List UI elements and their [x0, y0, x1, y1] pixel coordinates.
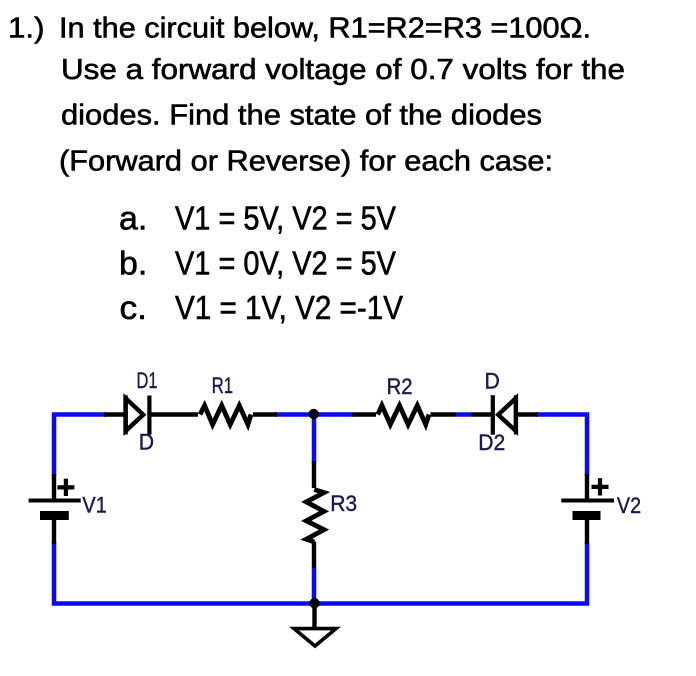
diode D2 [491, 395, 495, 435]
ground symbol [294, 629, 336, 646]
svg-text:D: D [485, 369, 500, 394]
wire top-right corner + right vertical upper [536, 415, 587, 477]
ground stem [312, 603, 316, 628]
svg-text:b.: b. [119, 245, 147, 282]
battery V1 plus sign [57, 485, 74, 489]
svg-text:D: D [139, 430, 154, 455]
svg-text:diodes. Find the state of the: diodes. Find the state of the diodes [61, 100, 542, 132]
svg-text:V1 = 0V, V2 = 5V: V1 = 0V, V2 = 5V [175, 245, 397, 282]
problem statement text [8, 12, 625, 327]
resistor R1 [200, 406, 251, 425]
svg-text:1.): 1.) [8, 12, 45, 44]
resistor R3 [306, 490, 324, 543]
svg-text:c.: c. [120, 290, 148, 327]
battery V1 bottom lead [52, 520, 56, 544]
node junction dot (top) [309, 409, 319, 419]
component labels [82, 368, 641, 518]
wire D1 anode lead [104, 412, 127, 416]
battery V1 positive plate [29, 499, 81, 503]
svg-text:V1 = 5V, V2 = 5V: V1 = 5V, V2 = 5V [175, 200, 397, 237]
battery V2 bottom lead [585, 520, 589, 544]
wire D1 to R1 [149, 412, 198, 416]
wire node vertical to R3 [312, 415, 317, 464]
resistor R2 [378, 406, 429, 425]
svg-text:R1: R1 [212, 373, 234, 398]
wire R2 to D2 [431, 412, 457, 416]
battery V1 negative plate [40, 511, 69, 520]
wire left vertical lower + bottom wire + right vertical lower [54, 542, 587, 604]
svg-text:(Forward or Reverse) for each: (Forward or Reverse) for each case: [59, 146, 553, 178]
wire R3 bottom lead [312, 542, 316, 569]
wire into D2 cathode [471, 412, 493, 416]
wire node to R3 top lead [312, 461, 316, 488]
wire blue dash left of D2 [456, 412, 471, 417]
battery V2 positive plate [561, 499, 614, 503]
svg-text:D2: D2 [478, 430, 505, 455]
battery V1 top lead [52, 474, 56, 499]
battery V2 top lead [585, 474, 589, 499]
battery V2 negative plate [573, 511, 601, 520]
svg-text:V1: V1 [82, 493, 106, 518]
wire R1 to node [253, 412, 277, 416]
node junction dot (bottom/ground) [309, 598, 319, 608]
svg-text:Use a forward voltage of 0.7 v: Use a forward voltage of 0.7 volts for t… [61, 54, 625, 86]
diode D1 [123, 395, 127, 434]
wire R3 bottom to ground bus [312, 567, 317, 604]
battery V2 plus sign [592, 485, 609, 489]
svg-text:V1 = 1V, V2 =-1V: V1 = 1V, V2 =-1V [175, 290, 404, 327]
wire top-left corner + left vertical upper [54, 415, 106, 477]
svg-text:In the circuit below, R1=R2=R3: In the circuit below, R1=R2=R3 =100Ω. [59, 12, 591, 44]
svg-text:V2: V2 [617, 493, 641, 518]
wire node to R2 [352, 412, 376, 416]
wire node horizontal (R1 to R2) [275, 412, 353, 417]
svg-text:R3: R3 [330, 491, 357, 516]
svg-text:a.: a. [119, 200, 147, 237]
svg-text:D1: D1 [137, 368, 158, 393]
svg-text:R2: R2 [387, 374, 413, 399]
wire D2 anode lead [516, 412, 538, 416]
